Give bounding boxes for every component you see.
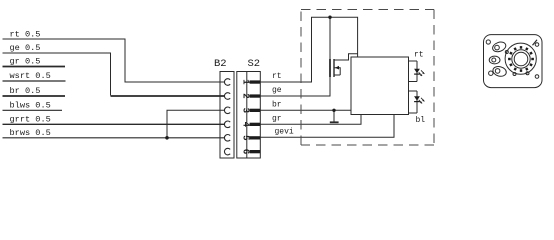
svg-text:6: 6 xyxy=(241,149,251,154)
svg-text:br 0.5: br 0.5 xyxy=(10,86,41,96)
svg-text:grrt 0.5: grrt 0.5 xyxy=(10,114,51,124)
svg-text:5: 5 xyxy=(241,135,251,140)
svg-text:brws 0.5: brws 0.5 xyxy=(10,128,51,138)
svg-text:br: br xyxy=(272,101,282,110)
svg-text:B2: B2 xyxy=(214,58,227,70)
svg-text:gr: gr xyxy=(272,115,282,124)
svg-text:1: 1 xyxy=(241,79,251,85)
svg-text:gevi: gevi xyxy=(275,128,294,137)
svg-text:2: 2 xyxy=(241,93,251,98)
svg-text:ge: ge xyxy=(272,86,282,95)
svg-text:gr 0.5: gr 0.5 xyxy=(10,57,41,67)
svg-text:rt: rt xyxy=(414,51,424,60)
svg-text:3: 3 xyxy=(241,108,251,113)
svg-text:ge 0.5: ge 0.5 xyxy=(10,43,41,53)
svg-text:blws 0.5: blws 0.5 xyxy=(10,100,51,110)
svg-text:rt 0.5: rt 0.5 xyxy=(10,29,41,39)
svg-text:S2: S2 xyxy=(248,58,261,70)
svg-text:wsrt 0.5: wsrt 0.5 xyxy=(10,71,51,81)
svg-text:4: 4 xyxy=(241,122,251,128)
svg-text:bl: bl xyxy=(416,116,426,125)
svg-text:rt: rt xyxy=(272,72,282,81)
